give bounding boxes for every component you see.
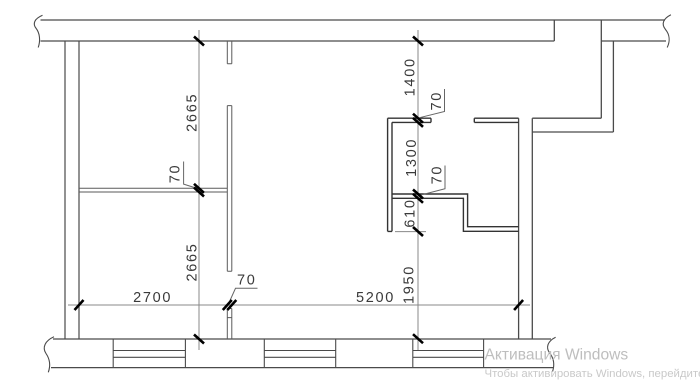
break squiggle bottom-right (548, 337, 556, 371)
tick at 610 bottom x=418 (413, 227, 423, 236)
wall: step ledge top line (532, 117, 601, 119)
leader for 70 bottom (228, 288, 257, 304)
svg-text:1950: 1950 (402, 265, 418, 304)
window W1 glazing lines (113, 351, 185, 358)
break squiggle bottom-left (44, 337, 54, 373)
svg-text:70: 70 (168, 164, 184, 184)
svg-text:70: 70 (429, 91, 445, 111)
leader for 70 top-right (419, 89, 445, 118)
double tick at niche top x=418 (413, 114, 423, 127)
svg-text:1400: 1400 (403, 57, 419, 96)
window W3 left jamb (412, 339, 414, 368)
interior horizontal wall y=188-192 (79, 188, 227, 192)
wall: right exterior wall upper, outer line (600, 20, 602, 118)
double tick at niche bottom x=418 (413, 190, 423, 203)
tick at bottom wall x=418 (413, 334, 423, 343)
wall: top exterior wall top line (41, 19, 666, 21)
partition stub above bottom wall (227, 309, 232, 340)
svg-text:610: 610 (403, 198, 419, 227)
wall: right exterior wall upper, outer face (612, 41, 614, 132)
double tick at interior wall x=199 (194, 184, 204, 197)
dimension line horizontal y=305 (68, 304, 530, 306)
partition stub below top wall (227, 41, 232, 64)
tick at left wall y=305 (75, 300, 84, 310)
partition wall middle (x=227-232) (227, 106, 232, 272)
svg-text:2665: 2665 (184, 242, 200, 281)
thin wall segment x=474-518 (474, 118, 518, 122)
double tick at partition y=305 (223, 300, 237, 310)
leader for 70 mid-right (419, 166, 445, 196)
svg-text:70: 70 (430, 165, 446, 185)
window W2 right jamb (335, 339, 337, 368)
window W3 right jamb (483, 339, 485, 368)
svg-text:2700: 2700 (133, 290, 172, 306)
wall: left exterior wall inner line (78, 41, 80, 339)
niche/closet bottom wall + Z-wall to right wall, lower face (392, 198, 519, 231)
tick at bottom wall x=199 (194, 335, 204, 344)
tick at top wall x=199 (194, 37, 204, 46)
window W1 left jamb (112, 339, 114, 368)
svg-text:2665: 2665 (184, 93, 200, 132)
wall: step ledge bottom line (532, 131, 613, 133)
wall: bottom exterior wall bottom line (51, 367, 554, 369)
window W2 left jamb (263, 339, 265, 368)
dimension line vertical x=199 (198, 30, 200, 350)
niche/closet left wall (388, 118, 392, 231)
window W2 glazing lines (264, 351, 335, 358)
dimension line vertical x=418 (417, 30, 419, 350)
wall: top wall opening jamb at x=554 (553, 20, 555, 41)
break squiggle top-left (34, 15, 42, 47)
window W3 glazing lines (413, 351, 484, 358)
svg-text:Чтобы активировать Windows, пе: Чтобы активировать Windows, перейдите в … (485, 368, 700, 380)
tick at right wall y=305 (514, 300, 523, 310)
svg-text:70: 70 (237, 272, 257, 288)
svg-text:1300: 1300 (404, 138, 420, 177)
wall: right interior wall right face (531, 118, 533, 339)
svg-text:5200: 5200 (356, 290, 395, 306)
leader for 70 left (184, 162, 198, 189)
tick at top wall x=418 (413, 37, 423, 46)
break squiggle top-right (663, 15, 671, 48)
wall: top exterior wall bottom line right part (601, 40, 666, 42)
niche/closet top wall (388, 118, 431, 122)
window W1 right jamb (184, 339, 186, 368)
wall: left exterior wall outer line (64, 41, 66, 339)
wall: bottom exterior wall top line (53, 338, 551, 340)
svg-text:Активация Windows: Активация Windows (485, 347, 629, 364)
wall: right interior wall left face (518, 118, 520, 339)
extension line y=231.6 for 610 (395, 231, 426, 233)
wall: top exterior wall bottom line left part (41, 40, 555, 42)
niche/closet bottom wall + Z-wall to right wall, upper face (392, 194, 519, 227)
